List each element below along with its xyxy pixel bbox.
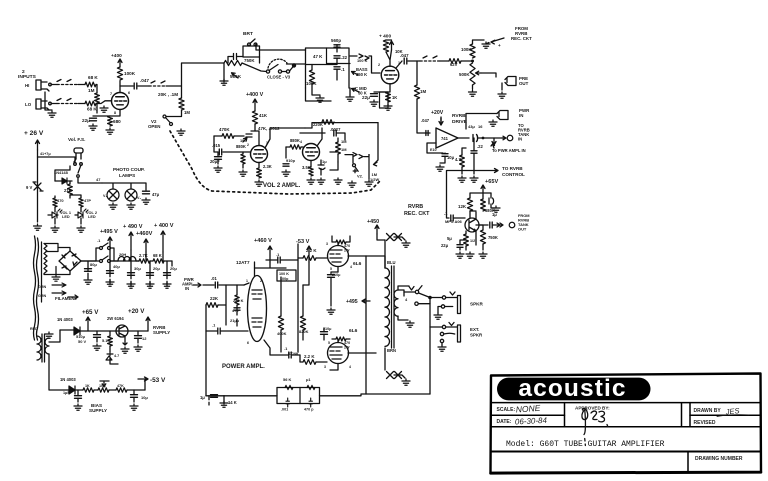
- wire Q2 emitter down: [123, 337, 127, 345]
- svg-text:30μ: 30μ: [134, 266, 141, 271]
- wire 22u connect: [460, 240, 466, 250]
- capacitor 510u: [94, 335, 101, 338]
- wire plate b to ot: [366, 352, 376, 354]
- svg-text:V2.: V2.: [357, 174, 363, 179]
- wire to v2a grid: [223, 151, 250, 153]
- svg-text:To PWR AMPL IN: To PWR AMPL IN: [492, 148, 526, 153]
- tone stack box: [306, 48, 350, 88]
- ground 4.7: [458, 176, 466, 182]
- svg-text:+460V: +460V: [136, 231, 153, 237]
- wire plate a to ot: [366, 256, 385, 268]
- ground x b: [402, 379, 410, 385]
- resistor V3 cathode: [386, 92, 391, 102]
- transformer OT primary: [385, 268, 390, 346]
- switch V2 OPEN: [163, 115, 182, 126]
- svg-text:.22: .22: [477, 144, 483, 149]
- capacitor 22u cathode bypass: [90, 118, 97, 121]
- input jack J1 (HI): [36, 80, 51, 91]
- svg-text:470: 470: [344, 244, 350, 248]
- wire 210u b net: [323, 328, 325, 340]
- svg-text:47 K: 47 K: [313, 54, 323, 59]
- wire pwr in to op-amp: [466, 114, 497, 130]
- wire arrows to jack: [493, 223, 503, 227]
- svg-text:560p: 560p: [331, 38, 341, 43]
- drawn-by underline swoosh: [717, 415, 749, 417]
- svg-text:GRN: GRN: [38, 285, 47, 289]
- wire fb to output: [320, 394, 431, 396]
- svg-text:Model: G60T TUBE GUITAR AMP: Model: G60T TUBE GUITAR AMPLIFIER: [506, 440, 665, 449]
- wire v2b plate: [317, 128, 322, 146]
- resistor 100K mix: [470, 44, 475, 58]
- ground fb: [220, 401, 228, 407]
- capacitor .1 pa b: [289, 352, 291, 358]
- ground led2: [77, 226, 85, 232]
- switch BRT: [248, 39, 258, 46]
- wire PI lower out: [264, 340, 300, 355]
- svg-text:1/2: 1/2: [470, 239, 475, 243]
- svg-text:400K: 400K: [277, 331, 287, 336]
- pot wiper volume: [232, 73, 239, 78]
- wire jack sleeve to ground: [45, 92, 52, 110]
- capacitor 910p: [283, 164, 289, 166]
- resistor 1K bias: [83, 388, 94, 392]
- wire to mix node: [461, 60, 473, 62]
- wire bias pot top: [100, 380, 109, 382]
- svg-text:7: 7: [110, 92, 112, 96]
- wire 30u legs: [130, 261, 132, 286]
- wire plate res connect: [386, 39, 392, 41]
- svg-text:LED: LED: [62, 215, 70, 219]
- wire ot top lead: [384, 240, 386, 268]
- ground ot sec: [406, 321, 414, 327]
- resistor 3.5K: [309, 167, 313, 176]
- ground V3 cathode cap: [370, 100, 378, 106]
- svg-text:68 K: 68 K: [87, 107, 97, 112]
- svg-text:6: 6: [247, 341, 249, 345]
- wire screen a: [332, 236, 350, 246]
- resistor 22K pa: [206, 303, 218, 308]
- diode 1N4003 a: [74, 327, 80, 335]
- svg-text:100 K: 100 K: [357, 58, 368, 63]
- svg-text:SCALE:: SCALE:: [497, 407, 516, 413]
- capacitor 20u filter b: [164, 273, 171, 276]
- svg-text:IN: IN: [519, 113, 523, 118]
- wire fs to lamps: [78, 178, 102, 183]
- resistor 470K: [222, 134, 234, 139]
- shield hatch reverb: [423, 56, 437, 58]
- wire 220K top: [305, 123, 378, 128]
- wire 10u legs: [440, 153, 445, 163]
- wire to shield: [138, 85, 149, 87]
- x flag b1: [387, 372, 394, 379]
- resistor 47K bias: [116, 388, 127, 392]
- ground led1: [51, 226, 59, 232]
- svg-text:16: 16: [478, 124, 483, 129]
- svg-text:1/2W: 1/2W: [370, 177, 379, 182]
- capacitor 21uu: [234, 308, 240, 310]
- svg-text:LO: LO: [25, 102, 32, 107]
- svg-text:.01: .01: [211, 276, 217, 281]
- ground 1M half: [365, 180, 373, 186]
- wire sec top tap: [398, 286, 430, 304]
- pot wiper mid: [352, 88, 360, 92]
- svg-text:220K: 220K: [313, 122, 323, 127]
- potentiometer 500K reverb: [470, 63, 475, 85]
- wire bridge out: [81, 248, 99, 261]
- svg-text:REC. CKT: REC. CKT: [404, 211, 430, 217]
- wire sec to bridge: [56, 248, 70, 275]
- wire 6L6a cathode: [337, 267, 339, 273]
- wire 210u a net: [331, 272, 338, 306]
- svg-text:DRAWN BY: DRAWN BY: [694, 408, 722, 414]
- x flag b2: [395, 372, 402, 379]
- wire op-amp out: [458, 137, 469, 139]
- svg-text:20μ: 20μ: [170, 266, 177, 271]
- svg-text:500K: 500K: [459, 72, 470, 77]
- arrow -53V: [138, 377, 148, 381]
- svg-text:47K: 47K: [117, 384, 124, 388]
- wire led2: [75, 211, 81, 224]
- wire tone right edge to ground: [349, 88, 351, 95]
- svg-text:1μ: 1μ: [200, 395, 205, 400]
- ground 22u emitter: [456, 252, 464, 258]
- wire pot to ground: [223, 63, 225, 82]
- svg-text:LED: LED: [88, 215, 96, 219]
- resistor 1M drive: [414, 85, 419, 99]
- wire cap legs: [491, 193, 495, 208]
- svg-text:EXT.: EXT.: [470, 327, 479, 332]
- filament arrow 2: [68, 295, 78, 299]
- wire 26V to jack: [38, 157, 76, 163]
- svg-text:20K , .1M: 20K , .1M: [158, 92, 178, 97]
- resistor 5.1K: [108, 336, 113, 346]
- svg-text:43μ: 43μ: [468, 124, 475, 129]
- capacitor 40u filter: [107, 271, 114, 274]
- svg-text:.1: .1: [444, 211, 448, 216]
- svg-text:100K: 100K: [124, 71, 136, 76]
- wire 1M half leg: [368, 155, 370, 179]
- wire screen b: [332, 339, 350, 343]
- ground op-amp feedback: [436, 165, 444, 171]
- wire branch to pwr ampl: [492, 138, 496, 145]
- resistor emitter: [464, 234, 469, 246]
- wire +20V to op-amp: [440, 118, 442, 125]
- ground tone: [316, 96, 324, 102]
- wire V3 cathode: [374, 84, 390, 92]
- wire box divider: [299, 388, 301, 404]
- resistor 12K: [467, 198, 472, 211]
- resistor 20K: [179, 98, 184, 110]
- svg-text:.047: .047: [140, 78, 149, 83]
- jack PWR IN: [497, 111, 508, 120]
- resistor 68K upper: [85, 82, 96, 87]
- svg-text:5: 5: [328, 341, 330, 345]
- ground spkr: [434, 313, 442, 319]
- diode 1N4148: [62, 178, 67, 184]
- svg-text:OUT: OUT: [518, 227, 527, 232]
- ground ext spkr: [438, 345, 446, 351]
- resistor 47K v2 plate: [252, 111, 257, 124]
- wire V3 plate out: [396, 61, 402, 68]
- resistor 1M grid: [95, 93, 100, 103]
- svg-text:06-30-84: 06-30-84: [515, 416, 548, 427]
- ground input jacks: [48, 111, 56, 117]
- ground 40u: [106, 280, 114, 286]
- shield hatch: [151, 81, 165, 83]
- choke L1: [118, 257, 136, 262]
- resistor 680K bias: [481, 199, 486, 211]
- svg-text:3.5K: 3.5K: [302, 165, 311, 170]
- svg-text:1N 4003: 1N 4003: [57, 317, 73, 322]
- arrow +20V: [146, 317, 150, 331]
- svg-text:OUT: OUT: [519, 81, 529, 86]
- capacitor 47u photo: [143, 191, 150, 194]
- signature squiggle: [582, 408, 608, 445]
- wire 40u legs: [109, 261, 111, 284]
- arrow pwr in: [193, 283, 201, 287]
- capacitor 22u V3: [371, 94, 378, 97]
- junction tank branch: [482, 137, 485, 140]
- wire rvrb supply rail: [60, 330, 148, 331]
- svg-text:1M: 1M: [88, 88, 95, 93]
- svg-text:2: 2: [247, 143, 249, 147]
- dotted boundary: [170, 131, 381, 194]
- svg-text:470K: 470K: [219, 127, 230, 132]
- box V3 cathode socket: [380, 92, 389, 108]
- wire PI plate up: [244, 262, 255, 285]
- arrow from reverb: [486, 38, 504, 44]
- svg-text:2W: 2W: [344, 249, 350, 253]
- ground 80u: [84, 278, 92, 284]
- resistor 56K fb on edge: [285, 385, 293, 389]
- ground reverb pot: [469, 90, 477, 96]
- capacitor bias filter: [75, 396, 82, 399]
- svg-text:4.7: 4.7: [455, 157, 461, 162]
- svg-text:210μ: 210μ: [332, 273, 341, 277]
- svg-text:+495: +495: [346, 299, 358, 305]
- wire .1 run: [266, 259, 298, 261]
- wire 400K net: [280, 277, 282, 352]
- arrow +450: [375, 225, 379, 234]
- wire -53 feed: [303, 262, 309, 285]
- capacitor 1u v2b: [318, 165, 325, 170]
- resistor 680 cathode: [108, 116, 113, 126]
- svg-text:+65 V: +65 V: [82, 309, 99, 316]
- arrow +495 pa: [362, 299, 370, 303]
- svg-text:.1: .1: [341, 67, 345, 72]
- wire BRT top to tone box: [259, 49, 306, 51]
- svg-text:+65V: +65V: [485, 179, 498, 185]
- svg-text:741: 741: [441, 136, 449, 141]
- wire V1 plate output: [120, 85, 133, 87]
- wire pa input: [203, 284, 214, 286]
- svg-text:+400: +400: [111, 53, 122, 59]
- svg-text:OPEN: OPEN: [148, 124, 161, 129]
- svg-text:LAMPS: LAMPS: [119, 173, 135, 178]
- wire right drop: [368, 154, 370, 156]
- jack TO RVRB TANK IN: [502, 135, 513, 141]
- wire 560p legs: [336, 45, 338, 52]
- junction dot spkr: [428, 296, 432, 300]
- svg-text:2.2 K: 2.2 K: [304, 354, 315, 359]
- ground bridge: [52, 275, 60, 281]
- wire: [440, 60, 449, 62]
- arrow +495: [108, 237, 112, 250]
- svg-text:470 p: 470 p: [304, 408, 314, 412]
- title block bottom heavy border: [491, 472, 762, 473]
- svg-text:820K: 820K: [299, 329, 309, 334]
- wire 22K net: [206, 285, 226, 325]
- wire 280K chain: [236, 285, 238, 326]
- wire far right drop: [374, 123, 379, 166]
- svg-text:+460 V: +460 V: [254, 238, 272, 244]
- svg-text:6L6: 6L6: [353, 261, 362, 267]
- capacitor .047 coupling: [134, 83, 137, 89]
- resistor 10K bias: [98, 388, 109, 392]
- svg-text:68 K: 68 K: [88, 75, 98, 80]
- resistor 21K: [68, 184, 73, 195]
- svg-text:V₁: V₁: [103, 194, 107, 198]
- transistor Q2 regulator: [116, 325, 128, 337]
- ground 6L6a: [327, 308, 335, 314]
- capacitor 470p: [309, 398, 312, 407]
- tube V4 12AT7 phase inverter: [248, 276, 267, 342]
- wire ot bottom lead: [384, 348, 386, 370]
- wire feedback loop: [427, 143, 443, 153]
- svg-text:22K: 22K: [210, 296, 219, 301]
- svg-text:20μ: 20μ: [153, 266, 160, 271]
- svg-text:Vol. F.S.: Vol. F.S.: [68, 137, 85, 142]
- wire BRT switch legs: [249, 45, 256, 46]
- svg-text:2: 2: [378, 63, 380, 67]
- wire 12u legs: [137, 331, 139, 343]
- arrow +460: [144, 239, 148, 252]
- arrow +400: [161, 231, 165, 252]
- transformer OT secondary: [394, 290, 398, 316]
- resistor 470K mix: [449, 59, 461, 64]
- wire 750K connect: [479, 225, 483, 250]
- svg-text:.22: .22: [341, 55, 348, 60]
- wire switch to tone stack: [287, 63, 306, 65]
- arrow +400 rail: [118, 59, 122, 67]
- wire 6L6b plate out: [348, 352, 366, 354]
- capacitor 80u filter: [85, 269, 92, 272]
- svg-text:22μ: 22μ: [441, 243, 449, 248]
- svg-text:SUPPLY: SUPPLY: [153, 330, 170, 335]
- arrow +490: [129, 232, 133, 250]
- svg-text:4: 4: [300, 140, 302, 144]
- triode V2b: [303, 144, 320, 161]
- arrow +400 V3: [390, 41, 394, 50]
- arrow +65V: [86, 317, 90, 331]
- capacitor 12u out: [135, 336, 142, 339]
- svg-text:6: 6: [128, 91, 130, 95]
- wire emitter resistor: [465, 231, 467, 250]
- wire to tank jack: [478, 137, 506, 139]
- wire tone node: [306, 65, 338, 81]
- svg-text:1N 4003: 1N 4003: [60, 377, 76, 382]
- wire v2a cathode: [258, 163, 260, 169]
- wire tone box inner line: [327, 48, 351, 64]
- svg-text:880K: 880K: [290, 138, 300, 143]
- transformer OT core: [392, 266, 395, 348]
- svg-text:+400 V: +400 V: [246, 92, 264, 98]
- svg-text:2W 6194: 2W 6194: [107, 316, 124, 321]
- resistor 400K: [278, 316, 283, 330]
- capacitor 10u feedback: [442, 154, 448, 157]
- ground V1 grid leak: [100, 106, 108, 112]
- wire plate a to fb: [365, 256, 367, 394]
- svg-text:MPS A06: MPS A06: [445, 219, 463, 224]
- title block grid lines: [491, 403, 762, 473]
- resistor u1 fb on edge: [307, 385, 315, 389]
- LED VOL 1: [52, 209, 62, 218]
- wire cap chain: [336, 58, 338, 64]
- wire led branch: [54, 196, 56, 198]
- svg-text:+: +: [498, 43, 501, 48]
- svg-text:1M: 1M: [341, 139, 347, 144]
- wire 470K run: [214, 135, 244, 137]
- capacitor 210u a: [328, 275, 335, 278]
- ground 22u: [89, 124, 97, 130]
- wire 20K drop: [181, 110, 183, 116]
- wire collector up: [470, 211, 476, 219]
- svg-text:1K: 1K: [85, 384, 90, 388]
- ground 20ub: [163, 282, 171, 288]
- ground 1M: [334, 178, 342, 184]
- resistor 100K tone: [309, 70, 314, 84]
- wire 1u legs: [320, 160, 322, 175]
- svg-text:REC. CKT: REC. CKT: [511, 36, 532, 41]
- svg-text:680: 680: [113, 119, 121, 124]
- resistor 68K lower: [85, 101, 96, 106]
- svg-text:100 K: 100 K: [279, 272, 289, 276]
- wire 47P connect: [70, 195, 81, 211]
- ground v2a cathode: [255, 180, 263, 186]
- wire: [408, 60, 420, 62]
- svg-text:.1: .1: [284, 346, 288, 351]
- svg-text:-53 V: -53 V: [150, 377, 166, 384]
- wire v2b out: [330, 151, 338, 153]
- capacitor .047 opamp: [426, 131, 428, 136]
- svg-text:41K: 41K: [259, 113, 268, 118]
- svg-text:470: 470: [344, 341, 350, 345]
- svg-text:NONE: NONE: [515, 403, 541, 415]
- filament winding arrows: [52, 283, 66, 295]
- wire 1M drop: [337, 138, 339, 162]
- wire output: [476, 224, 488, 226]
- wire HI jack to shield: [51, 84, 57, 86]
- ground 100K top: [482, 42, 490, 48]
- wire to volume pot: [166, 63, 224, 98]
- wire .0027 to 1M: [337, 133, 345, 140]
- ground 680: [106, 128, 114, 134]
- ground V2 switch: [177, 129, 185, 135]
- wire 10u bias legs: [133, 390, 135, 402]
- resistor 47P: [79, 198, 83, 207]
- wire 6L6a plate out: [348, 255, 366, 257]
- wire 1u to gnd: [209, 396, 224, 405]
- ground lamp1: [109, 203, 117, 209]
- svg-text:IN: IN: [518, 137, 522, 142]
- wire 820K net: [302, 285, 304, 340]
- lamp L2: [125, 189, 137, 201]
- svg-text:470: 470: [57, 198, 64, 203]
- arrow -53V pa: [307, 246, 311, 262]
- svg-text:+ 26 V: + 26 V: [24, 130, 44, 137]
- ground 910p: [282, 170, 290, 176]
- capacitor .22 out: [471, 151, 477, 153]
